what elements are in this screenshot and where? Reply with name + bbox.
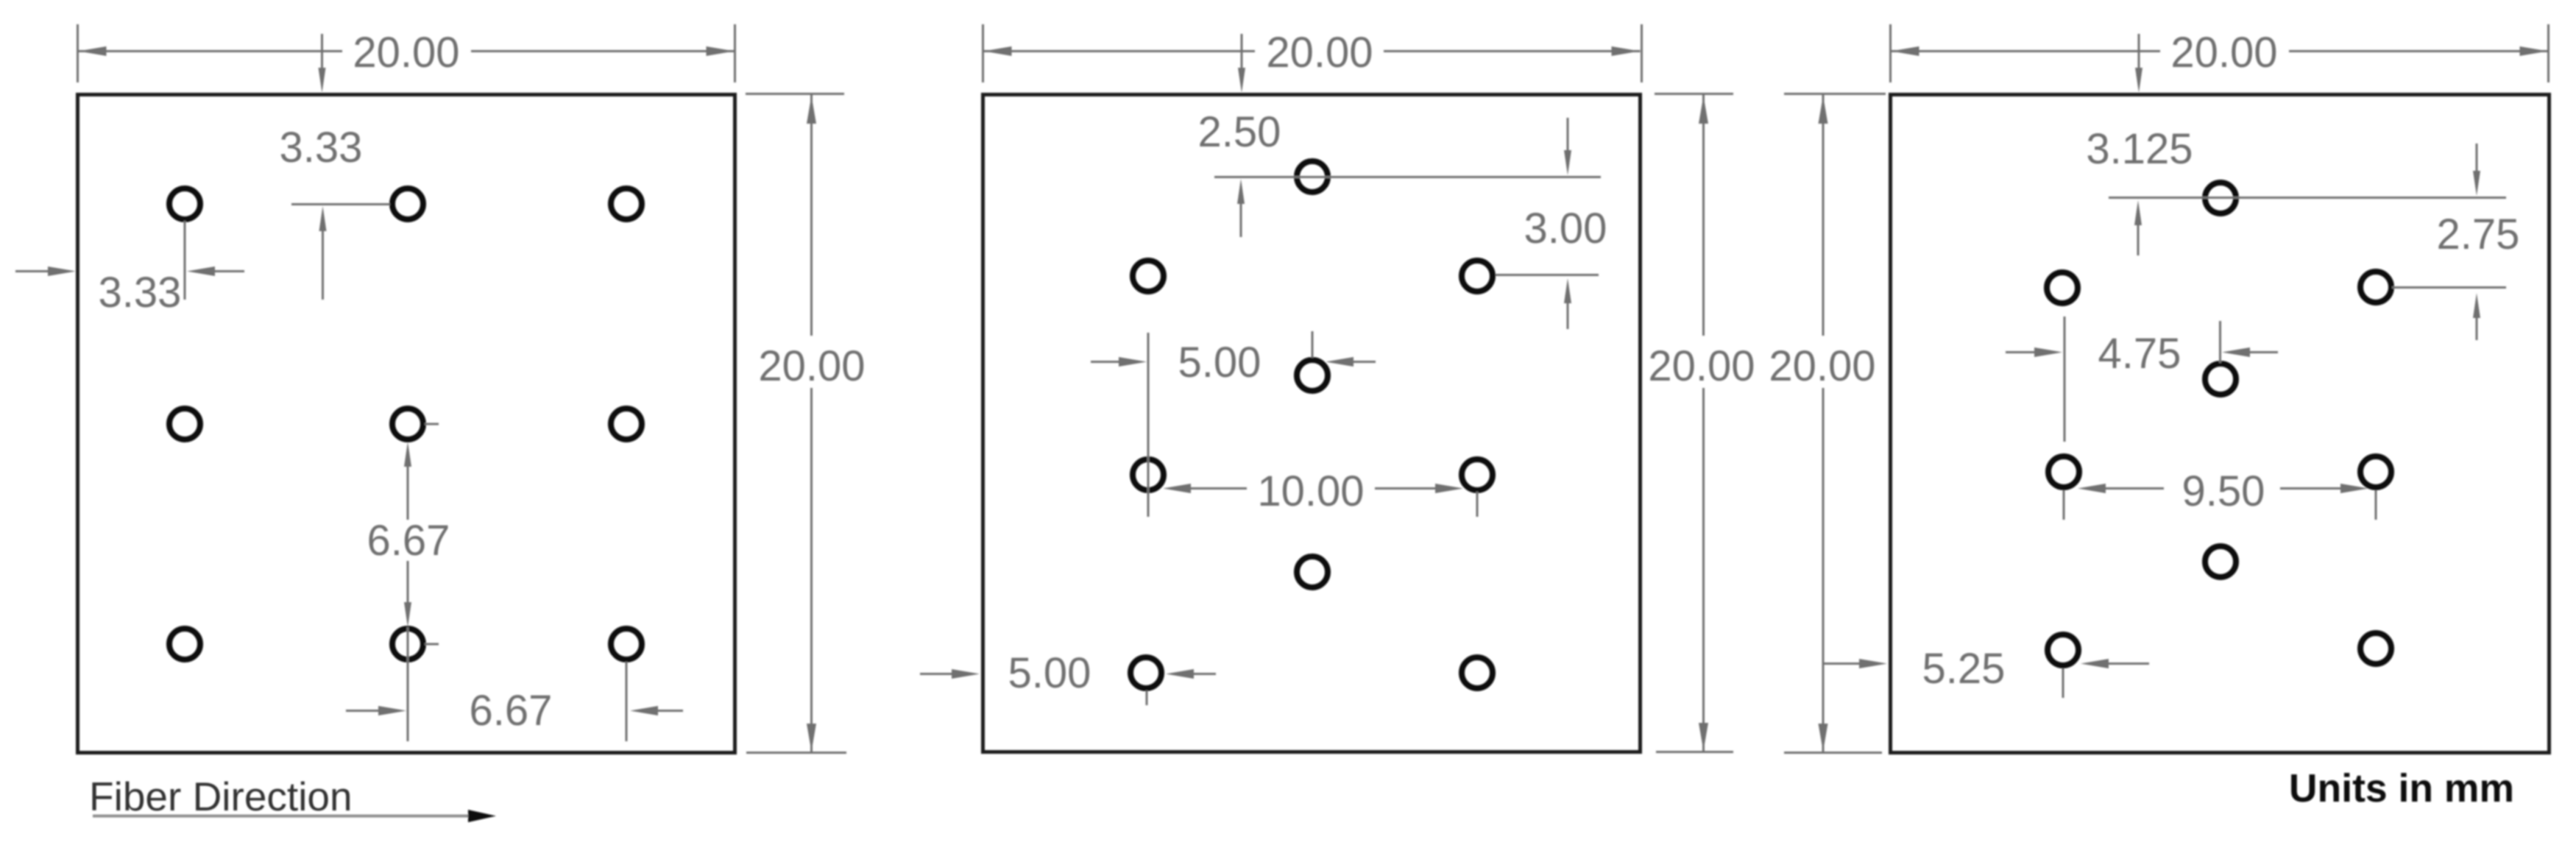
plate3 hole 6 bbox=[2360, 456, 2391, 487]
plate2 hole 7 bbox=[1297, 556, 1328, 587]
svg-text:20.00: 20.00 bbox=[1769, 342, 1875, 390]
plate3 top width dimension 20.00 bbox=[1891, 24, 2549, 93]
plate3 hole 4 bbox=[2205, 364, 2236, 395]
plate1 hole 1 bbox=[169, 188, 200, 219]
plate2 top width dimension 20.00 bbox=[983, 24, 1642, 93]
svg-text:Fiber Direction: Fiber Direction bbox=[89, 774, 353, 819]
plate1 hole 8 bbox=[392, 629, 423, 660]
plate2 right height dimension 20.00 bbox=[1648, 94, 1755, 752]
svg-text:6.67: 6.67 bbox=[470, 687, 553, 735]
svg-text:6.67: 6.67 bbox=[367, 517, 450, 565]
plate1 dimension 3.33 vertical (top edge to first hole row) bbox=[280, 124, 390, 300]
svg-text:20.00: 20.00 bbox=[353, 29, 459, 77]
plate2 hole 3 bbox=[1462, 261, 1493, 291]
svg-text:5.25: 5.25 bbox=[1922, 645, 2006, 693]
svg-text:20.00: 20.00 bbox=[2170, 29, 2277, 77]
plate2 hole 1 bbox=[1297, 161, 1328, 192]
plate3 hole 1 bbox=[2205, 183, 2236, 213]
svg-text:Units in mm: Units in mm bbox=[2289, 767, 2514, 810]
svg-text:3.00: 3.00 bbox=[1524, 205, 1607, 252]
plate2 dimension 3.00 (hole row 1 to row 2) bbox=[1496, 118, 1607, 329]
plate2 dimension 5.00 (left edge to bottom hole) bbox=[920, 649, 1216, 705]
plate3 hole 2 bbox=[2047, 272, 2078, 303]
svg-text:9.50: 9.50 bbox=[2182, 467, 2265, 515]
plate2 dimension 2.50 (top edge to first hole) bbox=[1198, 108, 1601, 237]
svg-text:3.33: 3.33 bbox=[280, 124, 363, 172]
plate1 hole 2 bbox=[392, 188, 423, 219]
plate2 hole 6 bbox=[1462, 459, 1493, 490]
plate1 hole 9 bbox=[611, 629, 642, 660]
plate1 hole 3 bbox=[611, 188, 642, 219]
plate2 hole 8 bbox=[1130, 657, 1161, 688]
svg-text:4.75: 4.75 bbox=[2098, 330, 2182, 378]
plate1 hole 6 bbox=[611, 409, 642, 439]
plate2 dimension 5.00 (column 1 to center) bbox=[1091, 331, 1376, 517]
units note bbox=[2289, 767, 2514, 810]
plate2 dimension 10.00 (row 3 holes) bbox=[1163, 467, 1477, 517]
plate 1 outline (20x20 square) bbox=[78, 95, 735, 753]
svg-text:3.125: 3.125 bbox=[2086, 125, 2193, 173]
plate2 hole 5 bbox=[1133, 459, 1164, 490]
plate3 dimension 4.75 (column 1 to center) bbox=[2006, 317, 2278, 442]
plate2 hole 2 bbox=[1133, 261, 1164, 291]
plate3 dimension 9.50 (row 3 holes) bbox=[2064, 467, 2376, 520]
plate3 hole 3 bbox=[2360, 272, 2391, 303]
fiber direction label bbox=[89, 774, 353, 819]
plate3 hole 7 bbox=[2205, 546, 2236, 577]
plate3 dimension 5.25 (left edge to bottom hole) bbox=[1824, 645, 2149, 698]
plate1 top width dimension 20.00 bbox=[78, 24, 735, 93]
svg-text:5.00: 5.00 bbox=[1178, 339, 1262, 386]
plate1 hole 5 bbox=[392, 409, 423, 439]
plate1 dimension 3.33 horizontal (left edge to first hole column) bbox=[15, 221, 244, 317]
svg-text:2.75: 2.75 bbox=[2437, 211, 2520, 258]
fiber direction arrow bbox=[93, 810, 496, 822]
svg-text:20.00: 20.00 bbox=[758, 342, 865, 390]
plate3 hole 9 bbox=[2360, 633, 2391, 664]
svg-text:2.50: 2.50 bbox=[1198, 108, 1281, 156]
plate1 hole 4 bbox=[169, 409, 200, 439]
svg-text:20.00: 20.00 bbox=[1266, 29, 1373, 77]
plate3 dimension 2.75 (hole row 1 to row 2) bbox=[2392, 144, 2519, 340]
plate2 hole 4 bbox=[1297, 360, 1328, 391]
plate 2 outline (20x20 square) bbox=[983, 95, 1641, 752]
plate 3 outline (20x20 square) bbox=[1891, 95, 2550, 753]
plate3 left height dimension 20.00 bbox=[1769, 94, 1886, 753]
plate1 dimension 6.67 vertical (row 2 to row 3) bbox=[367, 424, 450, 741]
plate3 hole 5 bbox=[2048, 456, 2079, 487]
plate3 dimension 3.125 (top edge to first hole) bbox=[2086, 125, 2506, 255]
plate1 dimension 6.67 horizontal (column 2 to column 3) bbox=[346, 662, 683, 741]
plate1 right height dimension 20.00 bbox=[746, 94, 866, 753]
svg-text:20.00: 20.00 bbox=[1648, 342, 1755, 390]
plate3 hole 8 bbox=[2048, 635, 2078, 665]
plate2 hole 9 bbox=[1462, 657, 1493, 688]
plate1 hole 7 bbox=[169, 629, 200, 660]
svg-text:3.33: 3.33 bbox=[99, 269, 182, 317]
svg-text:5.00: 5.00 bbox=[1008, 649, 1091, 697]
svg-text:10.00: 10.00 bbox=[1257, 467, 1364, 515]
